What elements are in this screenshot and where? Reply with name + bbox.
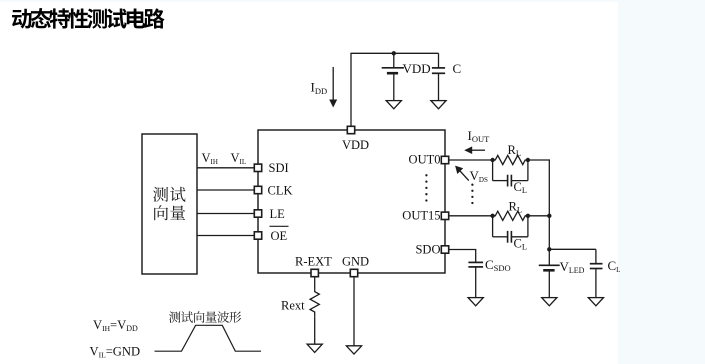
svg-text:RL: RL [508, 143, 522, 158]
wire OUT0 to RL1 [449, 159, 493, 161]
svg-text:R-EXT: R-EXT [295, 255, 332, 269]
pin CLK [254, 186, 261, 193]
pin label OE [270, 226, 289, 243]
resistor RL (OUT15) [493, 211, 528, 220]
title text 动态特性测试电路 [12, 8, 165, 29]
ground (GND pin) [346, 346, 361, 354]
svg-text:VIL: VIL [231, 151, 247, 166]
pin VDD [347, 126, 354, 133]
wire RL1 to bus [528, 159, 549, 161]
test-vector box label 测试向量 [153, 187, 185, 221]
svg-text:SDI: SDI [269, 161, 289, 175]
wire OE input [197, 235, 254, 237]
pin OUT15 [441, 212, 448, 219]
wire OUT15 to RL2 [449, 215, 493, 217]
capacitor C (VDD bypass) [432, 53, 445, 101]
resistor Rext [310, 289, 319, 316]
pin OE [254, 232, 261, 239]
svg-text:IOUT: IOUT [468, 128, 491, 144]
ellipsis dots OUT0..OUT15 (inside IC) [425, 174, 427, 202]
svg-text:IDD: IDD [311, 80, 328, 97]
svg-text:VIH​=VDD: VIH​=VDD [93, 318, 138, 333]
pin R-EXT [311, 269, 318, 276]
resistor RL (OUT0) [493, 155, 528, 164]
svg-text:CL: CL [514, 180, 528, 195]
svg-text:GND: GND [342, 255, 369, 269]
wire LE input [197, 213, 254, 215]
pin GND [350, 269, 357, 276]
svg-text:VIL​=GND: VIL​=GND [90, 345, 141, 360]
wire GND pin to ground [353, 277, 355, 346]
current arrow IDD [329, 67, 337, 108]
svg-text:CLK: CLK [268, 183, 293, 197]
battery VDD supply [382, 53, 404, 101]
wire Rext to ground [314, 316, 316, 344]
label 测试向量波形 (waveform title) [169, 311, 241, 323]
ground (right capacitor C) [588, 298, 603, 306]
capacitor CSDO [468, 262, 483, 298]
svg-text:VLED: VLED [560, 259, 585, 275]
ground (Rext) [307, 344, 322, 352]
wire SDO to CSDO [449, 250, 476, 263]
ground (VDD battery) [386, 101, 401, 109]
wire CLK input [197, 189, 254, 191]
svg-text:LE: LE [270, 207, 286, 221]
svg-text:VDD: VDD [342, 138, 369, 152]
ground (CSDO) [468, 298, 483, 306]
wire SDI input [197, 167, 254, 169]
pin LE [254, 210, 261, 217]
capacitor CL (OUT0) [493, 159, 528, 187]
wire VDD rail horizontal [350, 52, 438, 54]
junction VDD rail / battery [392, 51, 396, 55]
pin OUT0 [441, 156, 448, 163]
wire bus to C (right) [549, 248, 596, 250]
svg-text:CL: CL [608, 258, 621, 274]
ground (VLED battery) [542, 298, 557, 306]
svg-text:C: C [453, 61, 462, 76]
svg-text:RL: RL [509, 200, 523, 215]
junction OUT0 row right [526, 158, 530, 162]
junction OUT0 row left [490, 158, 494, 162]
ground (capacitor C) [431, 101, 446, 109]
IC U1 body [258, 130, 445, 273]
pin SDO [441, 246, 448, 253]
current arrow IOUT [464, 146, 485, 154]
svg-text:CSDO: CSDO [485, 257, 511, 273]
svg-text:CL: CL [514, 236, 528, 251]
svg-text:VDS: VDS [470, 168, 488, 184]
wire RL2 to bus [528, 215, 549, 217]
waveform trace (test vector) [155, 325, 262, 351]
pin SDI [254, 164, 261, 171]
capacitor CL (OUT15) [493, 215, 528, 243]
svg-text:SDO: SDO [415, 242, 440, 256]
svg-text:VDD: VDD [403, 61, 431, 76]
svg-text:OUT15: OUT15 [402, 208, 440, 222]
wire VDD pin to rail [350, 53, 352, 126]
test-vector box [142, 134, 197, 274]
svg-text:OE: OE [271, 229, 288, 243]
svg-text:VIH: VIH [202, 151, 218, 166]
capacitor C (VLED bypass) [590, 249, 603, 298]
junction OUT15 row right [526, 214, 530, 218]
ellipsis dots (outside, VDS rows) [471, 184, 473, 205]
svg-text:OUT0: OUT0 [409, 153, 441, 167]
battery VLED supply [539, 265, 560, 298]
wire R-EXT pin to Rext [314, 277, 316, 289]
wire load bus vertical [548, 159, 550, 265]
junction OUT15 row left [490, 214, 494, 218]
junction bus / C branch [547, 247, 551, 251]
junction bus / OUT15 row [547, 214, 551, 218]
svg-text:Rext: Rext [281, 299, 305, 313]
voltage arrow VDS [455, 166, 469, 181]
